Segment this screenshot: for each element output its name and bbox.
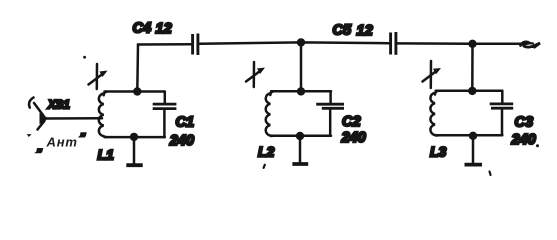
svg-text:12: 12 <box>357 23 373 39</box>
node tank3 top junction <box>468 87 476 95</box>
wire tank1 right upper stub <box>164 92 167 104</box>
wire output break squiggle <box>521 42 541 47</box>
wire tank3 bottom <box>436 134 503 137</box>
svg-text:240: 240 <box>511 132 536 148</box>
capacitor C5 <box>391 32 396 55</box>
connector XS1 fork upper arm <box>34 103 44 116</box>
ground tank2 <box>299 136 302 163</box>
node top junction above L3 <box>468 40 476 48</box>
node tank1 bottom junction <box>130 133 138 141</box>
wire tank2 right lower stub <box>329 110 332 136</box>
tick below L2 <box>264 165 265 168</box>
svg-text:C2: C2 <box>342 114 361 130</box>
node tank2 bottom junction <box>296 132 304 140</box>
svg-text:”: ” <box>80 132 86 144</box>
node top junction above L2 <box>297 38 305 46</box>
svg-text:240: 240 <box>169 133 194 149</box>
capacitor C4 <box>193 34 198 56</box>
svg-text:„: „ <box>37 142 43 154</box>
trimmer arrow over L3 <box>423 61 442 88</box>
wire tank1 bottom <box>105 136 165 139</box>
node tank2 top junction <box>297 87 305 95</box>
wire tank3 top <box>436 90 503 93</box>
svg-text:L2: L2 <box>258 144 275 160</box>
svg-text:L1: L1 <box>98 146 115 162</box>
wire vertical drop to tank 3 <box>471 44 474 91</box>
node tank3 bottom junction <box>469 132 477 140</box>
speck near trimmer arrow L1 <box>83 56 86 59</box>
ground tank1 <box>133 137 136 164</box>
wire tank2 top <box>271 90 331 93</box>
wire tank1 right lower stub <box>163 110 166 137</box>
ground tank3 <box>472 136 475 164</box>
svg-text:C1: C1 <box>176 114 195 130</box>
svg-text:240: 240 <box>341 130 366 146</box>
wire tank3 right lower stub <box>501 110 504 136</box>
connector XS1 arrowhead <box>40 113 49 125</box>
wire top bus right segment (C5 to output) <box>398 42 525 45</box>
wire tank3 right upper stub <box>501 91 504 103</box>
svg-text:XS1: XS1 <box>47 100 70 112</box>
wire vertical drop to tank 2 <box>300 42 303 91</box>
connector XS1 tick mark <box>27 134 32 137</box>
wire tank1 top <box>105 90 165 93</box>
capacitor C2 <box>316 104 344 108</box>
capacitor C1 <box>153 104 177 109</box>
node tank1 top junction <box>133 87 141 95</box>
trimmer arrow over L2 <box>246 62 265 87</box>
svg-text:12: 12 <box>156 21 172 37</box>
inductor L3 <box>430 91 438 136</box>
svg-text:C3: C3 <box>515 114 534 130</box>
inductor L2 <box>266 91 274 136</box>
svg-text:C4: C4 <box>133 20 152 36</box>
wire tank2 bottom <box>271 134 331 137</box>
connector XS1 fork lower arm <box>38 121 45 130</box>
svg-text:Анm: Анm <box>46 135 78 150</box>
svg-text:C5: C5 <box>333 23 352 39</box>
dot after 240 (C3) <box>536 144 539 147</box>
capacitor C3 <box>490 104 514 108</box>
inductor L1 <box>99 92 107 138</box>
tick below tank3 <box>490 172 491 176</box>
trimmer arrow over L1 <box>89 64 108 89</box>
wire tank2 right upper stub <box>329 91 332 103</box>
wire top bus middle segment (C4 to C5) <box>200 42 390 43</box>
svg-text:L3: L3 <box>430 144 447 160</box>
wire top bus left segment (corner to C4) <box>138 43 191 46</box>
wire vertical drop to tank 1 <box>136 45 139 92</box>
wire antenna lead <box>47 117 102 120</box>
connector XS1 socket arc <box>29 98 33 108</box>
